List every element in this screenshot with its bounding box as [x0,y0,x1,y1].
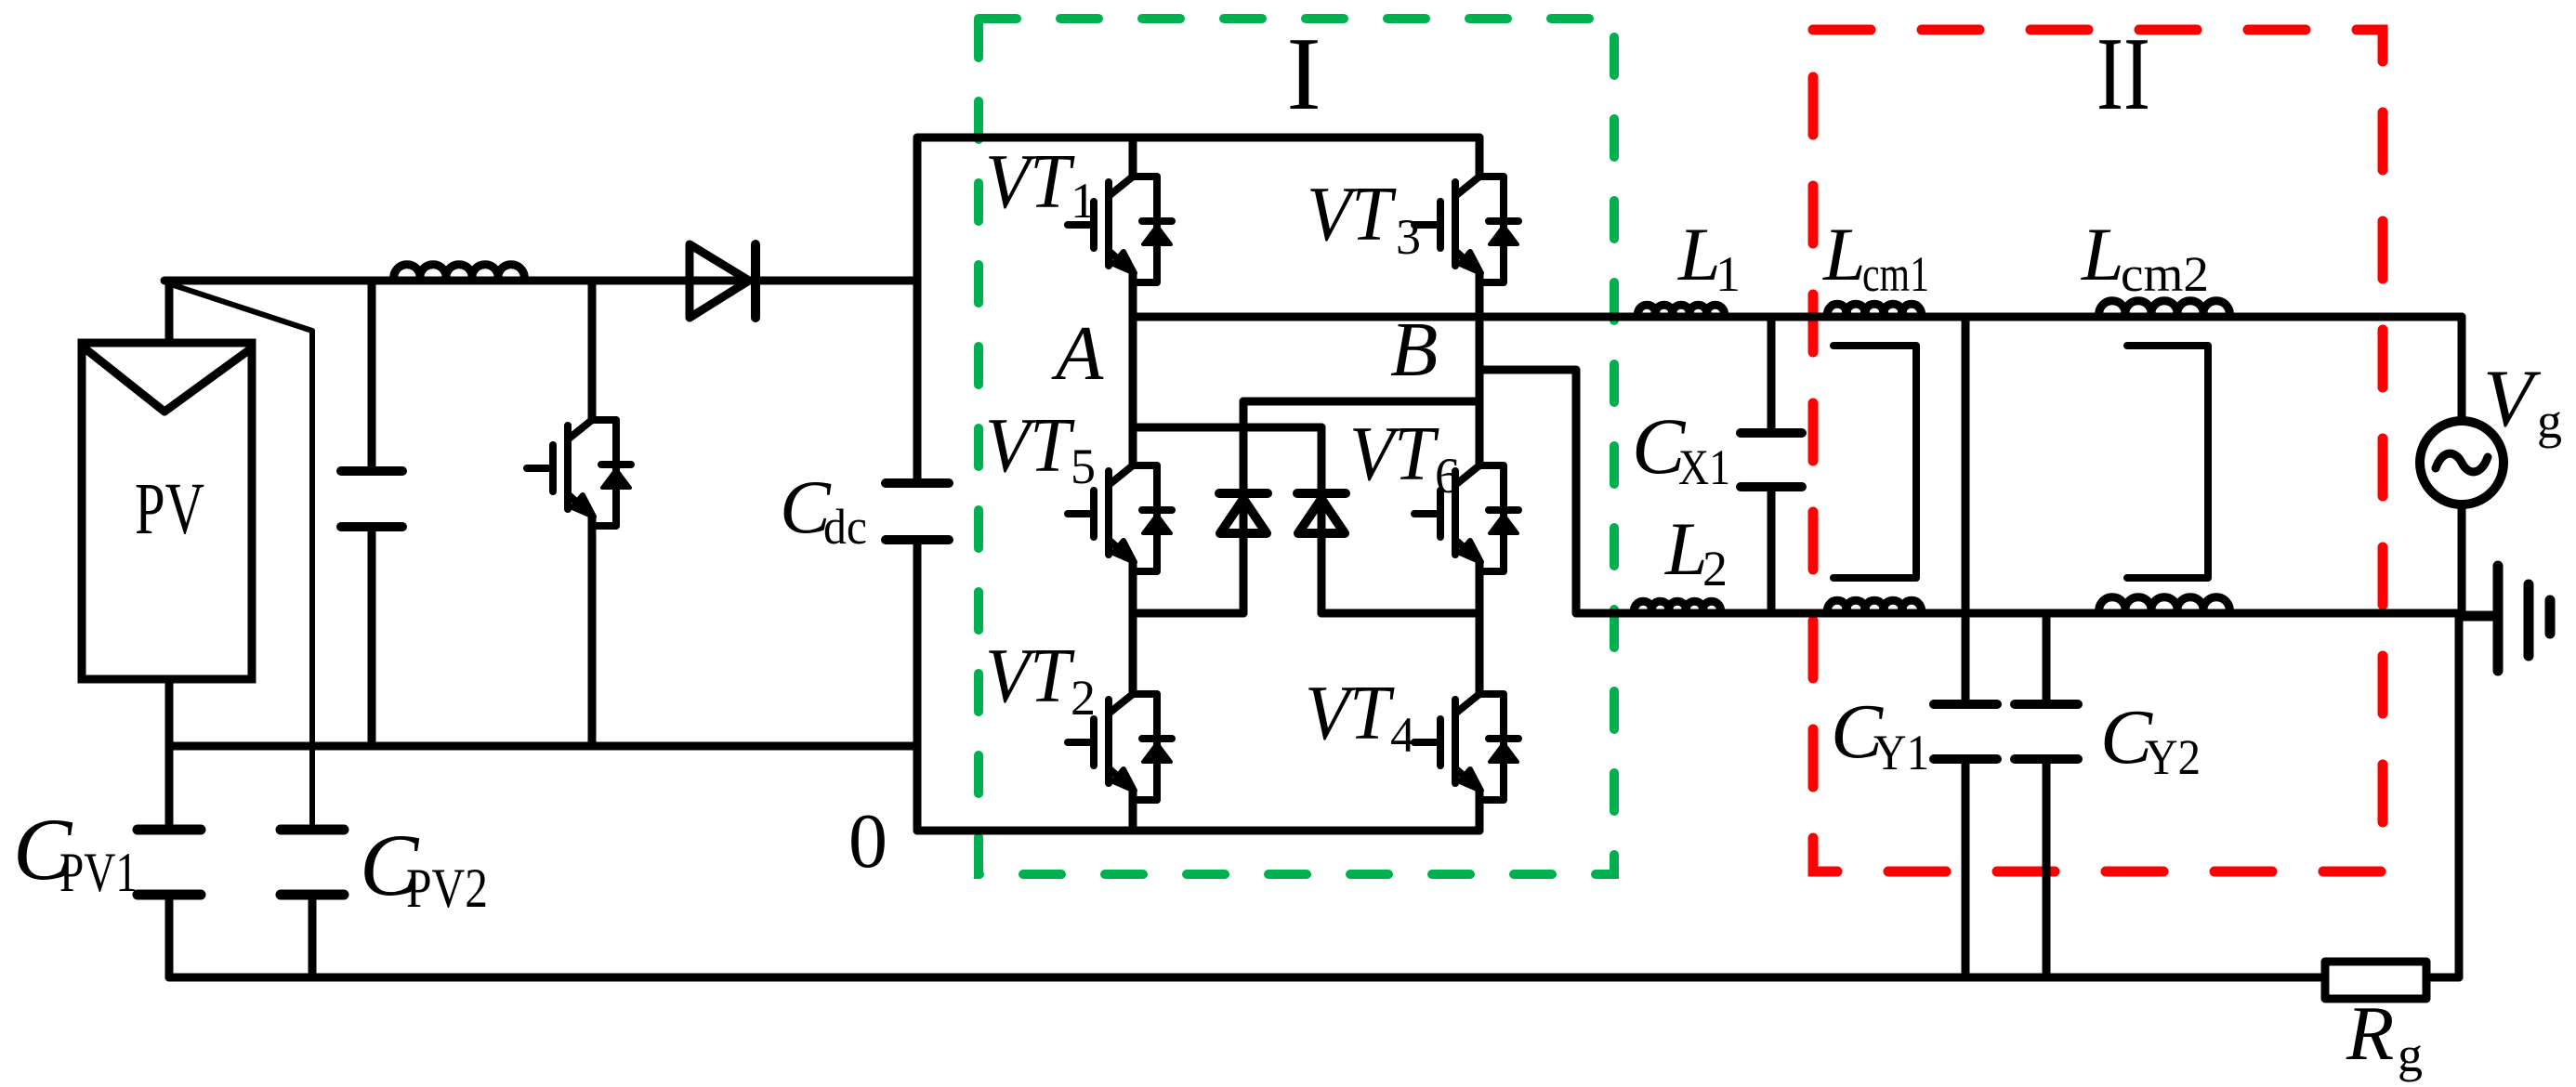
wire PV+ to top rail [165,281,174,343]
transistor VT5 [1068,465,1172,571]
capacitor C_PV1 [138,830,201,895]
DC link vertical bottom [913,544,922,746]
inductor L1 [1637,305,1724,317]
capacitor C_X1 [1741,433,1802,487]
svg-text:cm2: cm2 [2121,246,2209,302]
transistor VT2 [1068,694,1172,800]
svg-text:V: V [2483,354,2542,444]
wire C_Y2 bottom [2043,764,2051,977]
VD1 anode link [1133,609,1243,618]
right riser [2455,616,2464,977]
svg-text:VT: VT [1305,670,1395,756]
svg-text:0: 0 [848,798,887,884]
capacitor C_dc [886,483,949,540]
svg-text:2: 2 [1071,670,1096,726]
PV module box [82,343,252,679]
svg-text:dc: dc [823,499,867,555]
inverter top bus [917,134,1479,142]
svg-text:2: 2 [1702,541,1728,596]
input capacitor [341,471,402,527]
transistor VT3 [1414,177,1518,282]
wire input cap top [368,281,376,466]
svg-text:L: L [1664,506,1708,591]
source Vg sine [2436,453,2488,472]
svg-text:L: L [2081,212,2124,296]
node B output line [1576,609,2459,618]
svg-text:A: A [1051,310,1104,397]
VD1 cathode link [1243,398,1479,406]
wire Rg to corner [2426,974,2459,982]
inductor Lcm2 bottom winding [2099,597,2230,613]
svg-text:PV1: PV1 [59,842,138,903]
wire C_PV1 bottom [165,899,174,977]
diode VD1 [1219,489,1268,498]
ground symbol [2462,566,2550,671]
svg-text:I: I [1286,17,1321,132]
svg-text:X1: X1 [1678,439,1730,495]
node B link [1479,370,1576,613]
VD2 cathode link [1133,424,1321,432]
source Vg circle [2420,421,2504,504]
svg-text:VT: VT [1349,411,1439,497]
svg-text:R: R [2346,990,2394,1077]
wire C_X1 top [1768,317,1776,428]
left leg segments [1129,138,1137,831]
resistor Rg [2325,962,2426,999]
svg-text:1: 1 [1715,246,1741,302]
svg-text:II: II [2096,17,2150,132]
svg-text:1: 1 [1071,173,1096,229]
boost diode [690,244,749,318]
svg-text:g: g [2537,393,2562,449]
negative rail [169,742,917,751]
transistor VT6 [1414,465,1518,571]
wire input cap bottom [368,531,376,746]
node A output line [1133,313,2462,321]
top DC rail [164,277,917,285]
diode VD2 vertical [1318,427,1326,613]
right leg segments [1476,138,1484,831]
wire PV second terminal diagonal [174,285,312,825]
wire C_PV1 top [165,746,174,825]
svg-text:VT: VT [985,402,1075,489]
wire C_PV2 bottom [309,899,317,977]
wire Vg bottom [2458,504,2466,616]
capacitor C_Y2 [2015,704,2078,759]
transistor VT1 [1068,177,1172,282]
Lcm2 core [2127,346,2208,578]
wire boost switch collector [588,281,597,420]
svg-text:Y1: Y1 [1873,725,1929,780]
diode VD2 [1297,489,1346,498]
transistor VT4 [1414,694,1518,800]
wire Vg top [2458,317,2466,421]
svg-text:cm1: cm1 [1862,246,1929,302]
capacitor C_PV2 [281,830,344,895]
wire C_Y2 top [2043,613,2051,700]
PV chevron [84,347,250,412]
DC link vertical top [913,138,922,478]
wire C_Y1 bottom [1962,764,1970,977]
VD2 anode link [1321,609,1479,618]
svg-text:g: g [2398,1027,2423,1082]
region box II (red dashed) [1813,30,2383,871]
svg-text:5: 5 [1071,439,1096,494]
svg-text:PV: PV [135,469,204,550]
svg-text:VT: VT [985,633,1075,719]
svg-text:4: 4 [1390,707,1415,763]
svg-text:Y2: Y2 [2145,729,2201,785]
region box I (green dashed) [979,19,1614,874]
svg-text:3: 3 [1396,209,1421,265]
inductor Lcm1 bottom winding [1827,600,1921,613]
svg-text:VT: VT [1307,171,1397,257]
inductor Lcm2 top winding [2099,301,2230,317]
wire boost switch emitter [588,517,597,746]
Lcm1 core [1833,346,1916,578]
svg-text:L: L [1822,212,1866,296]
svg-text:PV2: PV2 [406,858,488,919]
svg-text:VT: VT [985,138,1075,225]
svg-text:6: 6 [1435,448,1460,504]
wire C_Y1 top [1962,317,1970,700]
wire C_X1 bottom [1768,491,1776,613]
wire PV- down [165,679,174,746]
inductor Lcm1 top winding [1827,304,1921,317]
DC link step to 0 bus [913,746,922,831]
capacitor C_Y1 [1934,704,1997,759]
diode VD1 vertical [1240,401,1248,613]
inductor L2 [1635,601,1721,613]
inverter bottom bus (0) [917,827,1479,835]
boost inductor [394,265,525,281]
ground rail [169,974,2325,982]
svg-text:L: L [1677,212,1721,296]
boost transistor [527,420,631,526]
